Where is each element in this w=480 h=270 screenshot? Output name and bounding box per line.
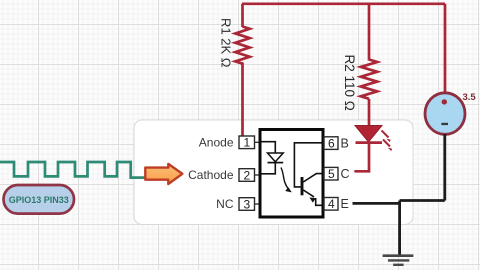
svg-text:6: 6	[328, 136, 335, 150]
wire: battery - down	[443, 134, 446, 201]
optocoupler module outline	[134, 120, 413, 225]
svg-text:2: 2	[243, 168, 250, 182]
wire: battery to ground junction	[400, 199, 445, 202]
transistor Q1 emitter lead to pin4	[316, 198, 322, 205]
svg-text:R2 110 Ω: R2 110 Ω	[342, 55, 357, 111]
svg-text:Anode: Anode	[199, 135, 234, 149]
svg-text:C: C	[341, 167, 350, 181]
pin 2	[239, 169, 259, 182]
LED D1 light arrows	[382, 131, 393, 152]
transistor Q1 base bar	[301, 177, 304, 195]
svg-text:Cathode: Cathode	[188, 168, 234, 182]
pin 4	[324, 198, 338, 211]
wire: square wave signal from GPIO	[0, 162, 145, 178]
internal base lead from pin6	[294, 143, 321, 187]
resistor R2	[361, 60, 377, 99]
transistor Q1 collector	[303, 174, 321, 182]
op-to IC U1 body	[260, 130, 323, 218]
svg-text:4: 4	[328, 197, 335, 211]
wire: junction down to ground	[398, 201, 401, 255]
ground	[383, 256, 414, 265]
LED D1 cathode bar	[356, 141, 383, 144]
transistor Q1 emitter arrowhead	[310, 198, 316, 203]
wire: E pin to junction	[353, 202, 400, 205]
wire: LED cathode to C pin	[356, 143, 370, 172]
svg-text:E: E	[341, 197, 349, 211]
internal light arrow	[281, 168, 288, 189]
internal LED triangle	[268, 153, 284, 162]
wire: R2 to LED D1	[368, 99, 371, 126]
internal LED lead to pin2	[262, 163, 276, 174]
svg-text:GPIO13 PIN33: GPIO13 PIN33	[9, 195, 69, 205]
internal LED cathode bar	[268, 162, 284, 164]
pointer arrow to Cathode	[145, 164, 182, 184]
pin 3	[239, 198, 259, 211]
svg-text:B: B	[341, 137, 349, 151]
wire: top rail to R2	[368, 4, 371, 61]
internal light arrowhead	[285, 187, 292, 192]
svg-text:NC: NC	[216, 197, 234, 211]
battery V1 3.5V	[425, 93, 465, 135]
transistor Q1 emitter	[303, 190, 314, 197]
svg-text:3: 3	[243, 197, 250, 211]
svg-text:3.5: 3.5	[463, 92, 477, 103]
wire: V+ top rail	[242, 2, 445, 5]
svg-text:R1 2K Ω: R1 2K Ω	[218, 18, 233, 68]
wire: R1 to pin 1 (Anode)	[241, 64, 244, 137]
node GPIO13 PIN33 label	[4, 185, 75, 214]
svg-text:1: 1	[243, 136, 250, 150]
internal LED lead from pin1	[262, 142, 276, 153]
pin 6	[324, 137, 338, 150]
pin 5	[324, 167, 338, 180]
wire: top rail to R1	[241, 4, 244, 27]
svg-text:5: 5	[328, 167, 335, 181]
wire: top rail down to battery +	[444, 4, 447, 93]
LED D1 triangle	[355, 126, 382, 143]
pin 1	[239, 136, 259, 149]
resistor R1	[235, 27, 249, 64]
